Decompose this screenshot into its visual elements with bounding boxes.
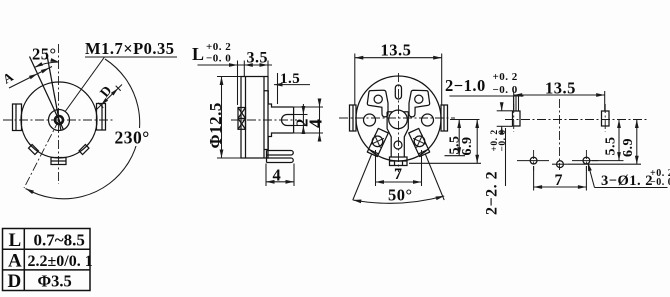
shaft outer circle — [49, 110, 70, 131]
right terminal — [409, 128, 430, 156]
svg-text:A: A — [8, 251, 22, 272]
svg-text:2−1.0: 2−1.0 — [445, 76, 486, 95]
slot line 2 — [47, 53, 61, 131]
main body circle — [21, 82, 97, 158]
bottom-left small tab — [29, 145, 39, 155]
25 deg arc — [35, 62, 60, 67]
svg-text:L: L — [9, 230, 22, 251]
svg-text:−0. 0: −0. 0 — [493, 84, 518, 96]
bottom 4 dimension — [265, 164, 267, 187]
svg-text:25°: 25° — [32, 45, 57, 64]
dia 12.5 dimension — [221, 77, 223, 159]
bottom tab — [390, 157, 408, 166]
svg-text:13.5: 13.5 — [381, 41, 412, 60]
leader to shaft — [65, 57, 104, 112]
svg-text:13.5: 13.5 — [545, 79, 576, 98]
right tab — [441, 105, 448, 131]
terminal pin lower — [267, 158, 294, 163]
left tab — [13, 104, 22, 131]
bushing profile bottom — [264, 133, 294, 150]
left rivet — [364, 114, 376, 126]
bottom center tab — [51, 158, 66, 165]
svg-text:3.5: 3.5 — [247, 50, 269, 67]
vertical centerline — [398, 73, 400, 172]
230 deg label — [113, 128, 153, 146]
svg-text:7: 7 — [394, 166, 403, 183]
center bracket right — [404, 112, 408, 157]
shaft tip — [293, 107, 295, 133]
svg-text:0.7~8.5: 0.7~8.5 — [34, 231, 85, 250]
svg-text:5.5: 5.5 — [604, 137, 619, 156]
svg-text:−0. 0: −0. 0 — [206, 53, 231, 65]
svg-text:Φ12.5: Φ12.5 — [206, 102, 225, 148]
1.5 dimension — [274, 84, 310, 86]
6.9 dimension view3 — [476, 120, 478, 164]
vertical centerline — [58, 44, 60, 184]
upper-left cutout — [367, 90, 388, 117]
svg-text:+0. 2: +0. 2 — [206, 41, 231, 53]
shaft inner ring — [55, 116, 63, 124]
svg-text:Φ3.5: Φ3.5 — [38, 272, 72, 291]
main circle — [356, 76, 441, 161]
bracket top edge — [387, 111, 392, 113]
horizontal centerline — [3, 119, 115, 121]
50 deg extension lines — [353, 155, 372, 201]
svg-text:4: 4 — [273, 166, 282, 185]
left tab — [350, 105, 357, 131]
svg-text:M1.7×P0.35: M1.7×P0.35 — [85, 39, 175, 58]
7 dimension — [375, 150, 377, 186]
svg-text:1.5: 1.5 — [280, 71, 300, 87]
svg-text:+0. 2: +0. 2 — [493, 71, 518, 83]
left slot — [513, 111, 521, 126]
top dimension line L / 3.5 — [198, 64, 273, 66]
horizontal centerline — [339, 117, 455, 119]
2 dimension (slot) — [294, 114, 308, 116]
A dimension line — [9, 67, 52, 89]
svg-text:D: D — [8, 271, 22, 292]
terminal pin upper — [267, 151, 294, 156]
svg-text:4: 4 — [306, 119, 326, 129]
right slot — [602, 111, 610, 126]
svg-text:7: 7 — [555, 172, 564, 189]
svg-text:6.9: 6.9 — [460, 137, 475, 156]
body outline — [241, 77, 268, 159]
svg-text:230°: 230° — [115, 128, 150, 148]
13.5 dimension — [514, 94, 605, 96]
5.5 dimension view3 — [450, 119, 480, 121]
crosshatched bushing box — [238, 108, 246, 130]
svg-text:2.2±0/0. 1: 2.2±0/0. 1 — [28, 253, 93, 270]
horizontal centerline — [505, 119, 648, 121]
4 dimension (shaft) — [294, 106, 323, 108]
230 deg arc — [26, 59, 140, 199]
D dimension line — [96, 85, 122, 111]
center bracket left — [387, 112, 391, 157]
svg-text:50°: 50° — [388, 186, 413, 205]
5.5 dimension view4 — [618, 120, 620, 161]
left terminal — [367, 128, 388, 156]
svg-text:6.9: 6.9 — [621, 138, 636, 157]
right tab — [97, 104, 106, 131]
slot line 1 (25 deg) — [30, 57, 64, 130]
13.5 dimension — [355, 57, 442, 59]
diagonal centerline 230 limit — [24, 120, 59, 188]
shaft slot — [282, 115, 294, 126]
svg-text:L: L — [192, 44, 205, 64]
pin holes — [530, 157, 537, 164]
2-2.2 label rotated — [484, 129, 509, 215]
side view centerline — [231, 119, 297, 121]
bottom-right small tab — [79, 145, 89, 155]
vertical centerline — [559, 99, 561, 170]
small hole below center — [394, 141, 402, 149]
upper-right cutout — [409, 90, 430, 117]
50 deg arc — [353, 196, 444, 203]
center hole — [389, 110, 408, 129]
svg-text:−0. 0: −0. 0 — [650, 177, 670, 188]
top pill slot — [395, 85, 401, 99]
6.9 dimension view4 — [636, 120, 638, 165]
7 dimension view4 — [533, 166, 535, 191]
right rivet — [422, 114, 434, 126]
bushing profile top — [264, 91, 294, 107]
svg-text:3−Ø1. 2: 3−Ø1. 2 — [601, 173, 653, 189]
svg-text:2−2. 2: 2−2. 2 — [484, 171, 501, 215]
